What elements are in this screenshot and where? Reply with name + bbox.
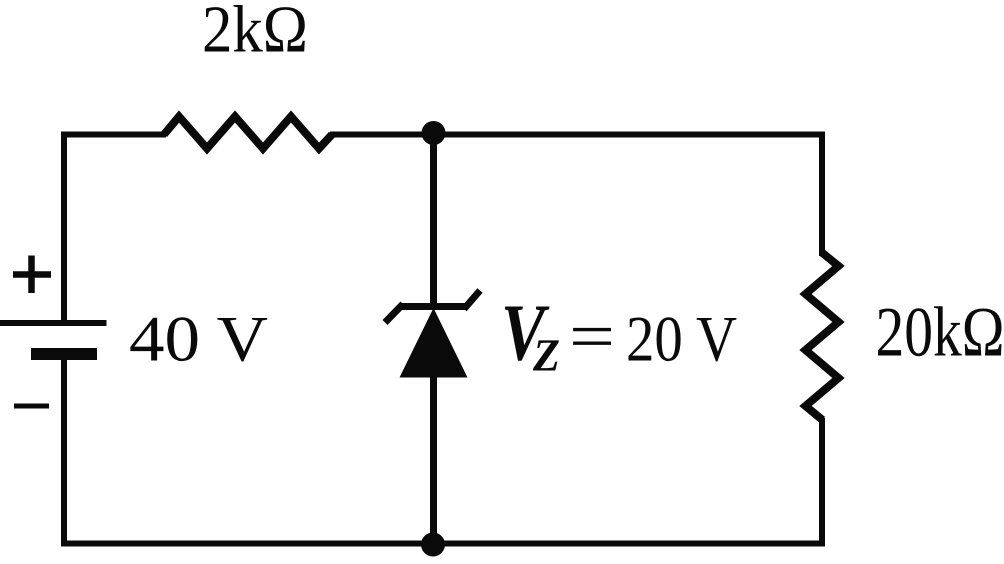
minus sign (battery polarity) [14,404,49,409]
battery V1 negative plate (short thick) [31,348,97,360]
wire: middle vertical from zener anode down to node B [430,375,437,544]
wire: left vertical from top wire down to battery + plate [61,132,67,322]
svg-text:Z: Z [532,330,560,381]
wire: middle vertical from node A down to zener cathode [430,133,437,308]
resistor R2 20kΩ (vertical zigzag) [806,253,839,420]
wire: bottom wire [61,541,825,547]
zener diode D1 right bent tick [464,291,480,310]
zener diode D1 left bent tick [385,304,403,323]
node A (top junction dot) [422,121,446,145]
node B (bottom junction dot) [421,533,445,557]
resistor R1 2kΩ (horizontal zigzag) [164,117,332,149]
wire: left vertical from battery - plate down to bottom wire [61,356,67,546]
wire: top wire from R1 to node A [330,132,433,138]
wire: top wire from node A to right branch [433,132,825,138]
label VZ = 20 V (zener voltage) [501,288,737,381]
svg-text:2kΩ: 2kΩ [202,0,308,67]
wire: right vertical from top wire down to resistor R2 [819,132,825,257]
wire: top wire left segment (battery + to resistor R1) [61,132,166,138]
svg-text:20kΩ: 20kΩ [876,294,1004,372]
wire: right vertical from R2 down to bottom wire [819,418,825,546]
svg-text:=: = [569,298,615,374]
label 40 V source value [129,304,268,376]
battery V1 positive plate (long) [0,320,107,326]
label 2kΩ value of R1 [202,0,308,67]
zener diode D1 anode triangle [400,308,468,378]
svg-text:20 V: 20 V [626,304,737,376]
zener diode D1 cathode bar [401,303,467,310]
svg-text:40 V: 40 V [129,304,268,376]
plus sign (battery polarity) [13,256,51,294]
label 20kΩ value of R2 [876,294,1004,372]
